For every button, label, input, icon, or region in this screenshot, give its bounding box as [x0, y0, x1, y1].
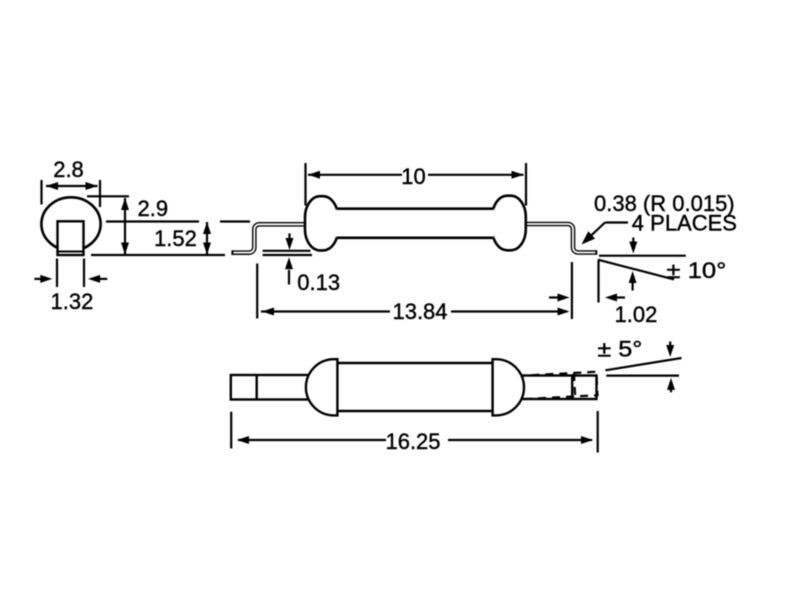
dim 13.84 line	[261, 310, 390, 312]
svg-text:1.02: 1.02	[615, 302, 658, 327]
svg-text:13.84: 13.84	[392, 299, 447, 324]
svg-text:2.9: 2.9	[138, 196, 169, 221]
right lead wire	[525, 224, 597, 253]
dim 0.13 reference lines	[263, 250, 311, 252]
dim 16.25 line	[238, 439, 386, 441]
svg-text:4 PLACES: 4 PLACES	[632, 211, 737, 236]
tol +-10 down arrow	[632, 238, 634, 244]
dim 10 line	[308, 174, 402, 176]
body top line (main view)	[337, 207, 494, 210]
right end cap (main view)	[492, 196, 526, 251]
lead tab (end view)	[58, 221, 84, 255]
dim 13.84 extension lines	[256, 264, 258, 319]
bottom baseline	[91, 254, 225, 256]
dim 2.8 line	[46, 185, 98, 187]
tol +-5 down arrow	[669, 342, 671, 347]
left lead (bottom view)	[231, 375, 312, 400]
svg-text:± 5°: ± 5°	[597, 337, 642, 362]
tol +-10 wedge lines	[599, 255, 686, 257]
svg-text:2.8: 2.8	[53, 157, 84, 182]
right lead dashed (tilted)	[517, 372, 597, 400]
dim 10 extension lines	[304, 163, 306, 206]
dim 1.52 top reference line	[106, 220, 199, 222]
dim 16.25 extension lines	[230, 412, 232, 449]
dim 2.9 top reference line	[87, 195, 129, 197]
left lead wire	[232, 224, 308, 252]
body bottom line (main view)	[337, 237, 494, 240]
svg-text:± 10°: ± 10°	[666, 258, 726, 283]
body top line (bottom view)	[337, 362, 493, 364]
tol +-10 up arrow	[631, 283, 633, 291]
dim 2.9 vertical line	[124, 198, 126, 255]
dim 0.13 down arrow	[288, 233, 290, 240]
dim 2.8 extension lines	[40, 180, 42, 205]
left end cap (main view)	[305, 196, 338, 250]
dim 1.32 arrows	[34, 278, 41, 280]
leader to bend radius	[605, 221, 628, 223]
tol +-5 up arrow	[670, 389, 672, 392]
right end cap (bottom view)	[493, 359, 524, 415]
svg-text:16.25: 16.25	[385, 429, 440, 454]
right lead solid (bottom view)	[518, 376, 597, 400]
lead tab inner line	[58, 251, 84, 253]
dim 1.02 extension line	[597, 261, 599, 303]
body middle fill (bottom view)	[337, 363, 492, 411]
dim 0.13 up arrow	[288, 270, 290, 285]
dim 1.02 arrows	[549, 296, 558, 298]
body bottom line (bottom view)	[337, 410, 493, 412]
svg-text:0.13: 0.13	[297, 270, 340, 295]
dim 1.32 extension lines	[56, 259, 58, 288]
body middle fill (main view)	[336, 209, 494, 238]
svg-text:1.32: 1.32	[51, 289, 94, 314]
dim 1.52 vertical line	[206, 222, 208, 255]
left end cap (bottom view)	[306, 359, 338, 415]
tol +-5 wedge lines	[605, 358, 681, 370]
svg-text:10: 10	[401, 164, 425, 189]
svg-text:1.52: 1.52	[154, 226, 197, 251]
body circle (end view)	[41, 197, 100, 250]
